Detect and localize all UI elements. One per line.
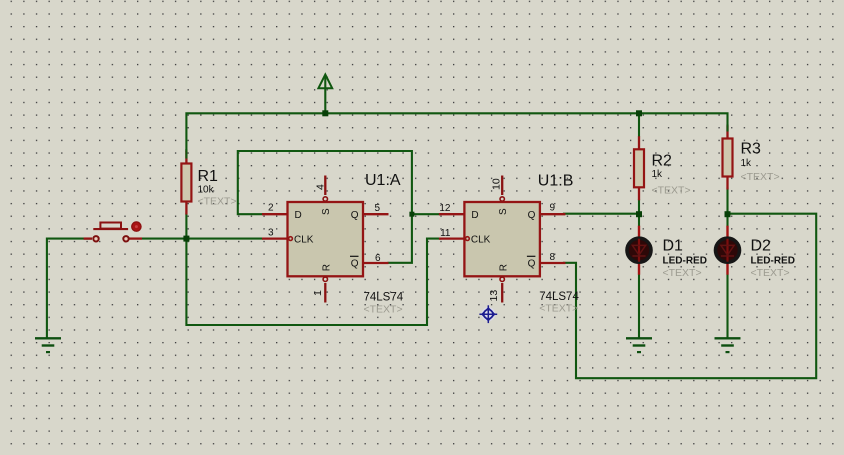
svg-text:3: 3 bbox=[268, 228, 274, 239]
svg-text:<TEXT>: <TEXT> bbox=[751, 267, 790, 279]
svg-text:<TEXT>: <TEXT> bbox=[364, 304, 403, 316]
svg-text:D2: D2 bbox=[751, 238, 772, 255]
svg-text:R1: R1 bbox=[198, 168, 219, 185]
svg-text:13: 13 bbox=[488, 290, 500, 302]
svg-text:R2: R2 bbox=[652, 153, 673, 170]
svg-text:<TEXT>: <TEXT> bbox=[198, 196, 237, 208]
svg-text:<TEXT>: <TEXT> bbox=[741, 171, 780, 183]
svg-text:1k: 1k bbox=[741, 158, 753, 169]
svg-text:R3: R3 bbox=[741, 141, 762, 158]
svg-text:74LS74: 74LS74 bbox=[539, 291, 579, 303]
svg-text:LED-RED: LED-RED bbox=[751, 256, 795, 267]
svg-text:6: 6 bbox=[375, 253, 381, 264]
svg-text:U1:B: U1:B bbox=[538, 172, 574, 189]
svg-text:<TEXT>: <TEXT> bbox=[663, 267, 702, 279]
svg-text:4: 4 bbox=[315, 184, 327, 190]
svg-text:10: 10 bbox=[491, 178, 503, 190]
svg-text:10k: 10k bbox=[198, 185, 215, 196]
svg-text:5: 5 bbox=[375, 203, 381, 214]
svg-text:U1:A: U1:A bbox=[365, 172, 401, 189]
svg-text:1k: 1k bbox=[652, 169, 664, 180]
svg-text:<TEXT>: <TEXT> bbox=[652, 185, 691, 197]
svg-text:D1: D1 bbox=[663, 238, 684, 255]
svg-text:11: 11 bbox=[440, 228, 451, 239]
svg-text:2: 2 bbox=[268, 203, 274, 214]
svg-text:12: 12 bbox=[439, 203, 451, 214]
svg-text:8: 8 bbox=[550, 252, 556, 263]
svg-text:74LS74: 74LS74 bbox=[364, 292, 404, 304]
svg-text:9: 9 bbox=[550, 203, 556, 214]
svg-text:1: 1 bbox=[312, 290, 324, 296]
svg-text:<TEXT>: <TEXT> bbox=[539, 303, 578, 315]
svg-text:LED-RED: LED-RED bbox=[663, 256, 707, 267]
